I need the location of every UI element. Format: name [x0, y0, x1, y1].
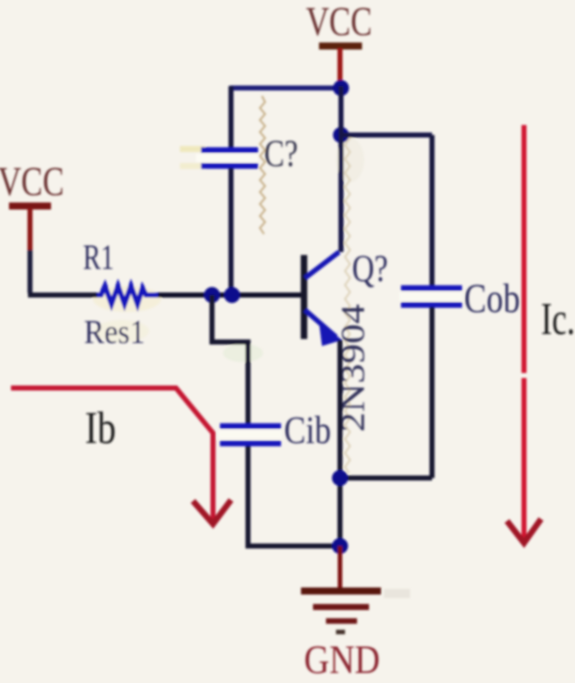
- junction node emitter/Cob: [332, 470, 348, 486]
- svg-text:C?: C?: [264, 133, 298, 175]
- svg-text:Res1: Res1: [84, 314, 145, 351]
- wire: emitter vertical down: [338, 340, 343, 546]
- power symbol VCC (top): [319, 46, 362, 88]
- svg-text:Cib: Cib: [284, 409, 331, 452]
- wire: base wire from resistor to transistor: [158, 293, 303, 298]
- svg-text:GND: GND: [304, 637, 380, 682]
- resistor R1: [97, 286, 158, 304]
- wire: collector vertical: [339, 86, 344, 252]
- wire: Cob bottom to emitter node: [340, 476, 432, 481]
- junction node at ground: [332, 538, 348, 554]
- wire: top horizontal (collector node to C? top): [230, 86, 342, 91]
- transistor Q?: [304, 252, 342, 346]
- junction node on base (right dot): [224, 287, 240, 303]
- wire: Cob bottom vertical: [430, 307, 435, 478]
- junction node on base (left dot): [204, 287, 220, 303]
- svg-text:Ib: Ib: [85, 402, 116, 453]
- ground stem: [338, 546, 342, 589]
- wire: Cob top vertical: [430, 135, 435, 286]
- svg-text:Ic.: Ic.: [541, 293, 575, 344]
- svg-text:VCC: VCC: [0, 158, 64, 204]
- junction node collector-Cob: [333, 127, 349, 143]
- current arrow Ic: [507, 125, 541, 543]
- capacitor Cib: [218, 426, 282, 444]
- ground symbol: [301, 591, 381, 632]
- capacitor Cob: [399, 288, 463, 305]
- wire: VCC left to resistor R1: [28, 293, 97, 298]
- svg-text:VCC: VCC: [306, 0, 372, 44]
- wire: Cib bottom to ground node: [248, 446, 340, 546]
- capacitor C?: [196, 150, 258, 166]
- wire: vertical below capacitor C? to base node: [229, 168, 234, 295]
- wire: base node down-leg: [212, 295, 248, 424]
- svg-text:Q?: Q?: [352, 248, 388, 290]
- wire: vertical above capacitor C?: [229, 86, 234, 149]
- current arrow Ib: [11, 388, 231, 524]
- power symbol VCC (left): [9, 206, 51, 293]
- svg-text:Cob: Cob: [464, 275, 520, 321]
- svg-text:R1: R1: [83, 237, 114, 277]
- wire: collector node to Cob top: [341, 133, 432, 138]
- junction node at top collector: [333, 80, 349, 96]
